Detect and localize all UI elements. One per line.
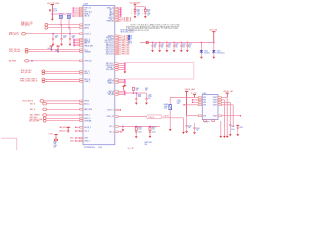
- svg-text:PROX_SNS_N: PROX_SNS_N: [22, 101, 34, 103]
- svg-text:MIPI_DSI0: MIPI_DSI0: [122, 50, 130, 52]
- svg-text:BAT_SNS: BAT_SNS: [84, 108, 92, 111]
- svg-text:1uF: 1uF: [147, 14, 150, 16]
- U400 left stub wires top rows: [73, 7, 79, 9]
- ground arrow branch A: [134, 16, 137, 18]
- capacitor bank column C413: [174, 42, 175, 43]
- svg-text:GPIO_25: GPIO_25: [107, 116, 114, 118]
- svg-text:100K: 100K: [138, 128, 142, 130]
- svg-text:TP: TP: [130, 39, 132, 41]
- ground arrow x224: [223, 136, 226, 138]
- row 131.8 stub: [118, 131, 121, 133]
- svg-text:U_DP: U_DP: [49, 134, 53, 136]
- svg-text:1uF: 1uF: [196, 129, 199, 131]
- ground arrow C430: [185, 131, 188, 133]
- power flag 5V_CTP: [193, 94, 196, 96]
- svg-text:10K: 10K: [136, 90, 139, 92]
- RP400 tap wire down to SCL: [60, 18, 62, 24]
- cap to ground B on row 93: [146, 93, 148, 98]
- svg-text:MIPI_DSI0: MIPI_DSI0: [122, 54, 130, 56]
- svg-text:SPKR_CONN_GSM2_P: SPKR_CONN_GSM2_P: [20, 78, 37, 80]
- svg-text:SPKR_CONN_GSM2_M: SPKR_CONN_GSM2_M: [20, 80, 38, 82]
- ground arrow D403: [212, 57, 215, 59]
- ground arrow below upper bus bar: [124, 69, 126, 72]
- off-page circles TPNR pair: [25, 48, 28, 51]
- wire row 126.4 to divider: [118, 125, 160, 127]
- svg-text:100K: 100K: [138, 96, 142, 98]
- svg-text:SD05C1: SD05C1: [204, 52, 210, 54]
- vertical wire with ground x183: [182, 118, 184, 132]
- ground arrow branch B: [144, 16, 147, 18]
- big IC U400 body: [83, 6, 115, 145]
- wire AUD 1: [45, 70, 80, 72]
- svg-text:PWM_BL: PWM_BL: [107, 21, 114, 23]
- power vertical x135: [134, 4, 136, 7]
- svg-text:SMB_S_CTP: SMB_S_CTP: [9, 32, 18, 34]
- MIPI bus lower bus bar: [124, 79, 126, 83]
- svg-text:LINE_2: LINE_2: [84, 81, 90, 83]
- U400 right rows 17.8-21 net labels: [118, 17, 121, 19]
- capacitor bank column C410: [152, 42, 153, 43]
- MIPI bus upper bus bar: [124, 62, 126, 70]
- svg-text:1uF: 1uF: [137, 14, 140, 16]
- ground arrow x220.8 under U401: [220, 121, 222, 136]
- resistor R402 branch A: [134, 9, 136, 11]
- ESD diode D402 branch wire: [201, 42, 202, 43]
- wire bead to U401 pin 1: [170, 96, 198, 98]
- svg-text:VOUT_5: VOUT_5: [107, 110, 114, 112]
- svg-text:1uF: 1uF: [188, 127, 191, 129]
- U401 left stub wires rows 2-3: [193, 99, 199, 101]
- svg-text:C428: C428: [177, 100, 181, 102]
- U401 right pin 4 wire and drop: [221, 104, 233, 106]
- ESD diode D403: [212, 50, 215, 52]
- power continues down to capacitor: [186, 116, 188, 126]
- MIPI bus upper pin group wires: [118, 63, 124, 65]
- U400 right pin number boxes: [115, 7, 118, 9]
- svg-text:NC_1: NC_1: [109, 126, 113, 128]
- capacitor cluster col 2: [61, 25, 63, 39]
- svg-text:10V: 10V: [182, 47, 185, 49]
- capacitor bottom left of U401: [186, 125, 188, 127]
- wire BAT_THERM: [47, 114, 80, 116]
- wire CTP_INT: [25, 33, 79, 35]
- U401 right pin 3 wire and drop: [221, 101, 230, 103]
- svg-text:LP5907: LP5907: [204, 122, 210, 124]
- svg-text:FB400: FB400: [164, 104, 169, 106]
- ground arrow bank C410: [151, 50, 154, 52]
- power wire vertical x52.3: [51, 5, 53, 19]
- svg-text:U400: U400: [84, 4, 89, 6]
- power flag U5V_LCM: [212, 31, 215, 33]
- wire PROX: [44, 100, 80, 102]
- capacitor branch A: [134, 12, 136, 13]
- svg-text:10V: 10V: [148, 98, 151, 100]
- wire power to U401 lower left pin: [187, 115, 199, 117]
- svg-text:10V: 10V: [154, 47, 157, 49]
- wire SPKR 2: [45, 80, 80, 82]
- svg-text:0.1uF: 0.1uF: [53, 10, 57, 12]
- svg-text:NC_2: NC_2: [109, 131, 113, 133]
- off-page oval BAT_THERM: [43, 114, 47, 117]
- svg-text:10K: 10K: [147, 11, 150, 13]
- ESD diode D402: [200, 50, 203, 52]
- wire SMB_SCL: [48, 24, 80, 26]
- USB cluster power flag: [54, 133, 57, 135]
- resistor R420 vertical: [135, 126, 137, 128]
- net label box LCM_ID: [146, 115, 161, 119]
- svg-text:3. BL ANODE WIDTH 12 MIL: 3. BL ANODE WIDTH 12 MIL: [126, 29, 149, 32]
- svg-text:U401: U401: [202, 93, 206, 95]
- svg-text:2.2uH: 2.2uH: [128, 43, 132, 45]
- svg-text:VOUT: VOUT: [213, 102, 217, 104]
- U401 right pin boxes: [218, 97, 221, 99]
- capacitor cluster under I2C lines - col 1: [52, 34, 54, 39]
- wire LCM_ID row: [118, 116, 146, 118]
- svg-text:0.1uF: 0.1uF: [177, 102, 181, 104]
- wire from LCM_ID oval to ground drop: [162, 117, 184, 119]
- svg-text:MIPI_DSI0: MIPI_DSI0: [122, 48, 130, 50]
- branch A pin tick: [134, 7, 136, 10]
- svg-text:GND2: GND2: [70, 141, 74, 143]
- svg-text:VBAT_1: VBAT_1: [108, 81, 114, 84]
- U400 left stub wires rows 39-46: [74, 38, 80, 40]
- svg-text:10V: 10V: [168, 47, 171, 49]
- regulator U401 body: [202, 95, 218, 120]
- off-page circles USB pair: [43, 117, 46, 120]
- U401 left wire row 4: [184, 104, 198, 106]
- svg-text:10V: 10V: [63, 37, 66, 39]
- svg-text:LCM: LCM: [98, 147, 102, 149]
- capacitor below R421: [149, 129, 151, 132]
- ESD diode D403 branch wire: [213, 42, 214, 43]
- resistor R403 branch B: [144, 9, 146, 11]
- power flag U5B_BL_ANO: [185, 90, 188, 92]
- wire SMB_SDA: [48, 27, 80, 29]
- svg-text:LCM_ID: LCM_ID: [163, 116, 169, 118]
- svg-text:THERM: THERM: [84, 51, 91, 53]
- capacitor bank column C414: [181, 42, 182, 43]
- U401 right pin 2 wire and drop: [221, 99, 224, 101]
- svg-text:TPNR_VIB_GB2: TPNR_VIB_GB2: [9, 51, 21, 53]
- ground arrow bank C413: [173, 50, 176, 52]
- svg-text:C401: C401: [53, 9, 57, 11]
- power flag bar top-left: [51, 4, 54, 6]
- MIPI bus lower pin group wires: [118, 79, 124, 81]
- capacitor bank column C412: [166, 42, 167, 43]
- wire SPKR 1: [45, 78, 80, 80]
- branch B pin tick: [144, 7, 146, 10]
- svg-text:VDD18: VDD18: [84, 24, 90, 26]
- ground arrow R421 branch: [149, 136, 152, 138]
- off-page circles AUD pair: [42, 70, 45, 73]
- svg-text:I2C_5: I2C_5: [84, 131, 89, 133]
- U400 right stub row 109.9: [118, 109, 120, 111]
- page corner border box: [1, 137, 17, 139]
- svg-text:CHG_1: CHG_1: [84, 115, 90, 117]
- off-page circles SMB pair: [45, 23, 48, 26]
- svg-text:VOUT: VOUT: [213, 115, 217, 117]
- svg-text:BST_N: BST_N: [30, 103, 36, 105]
- bus wire top segment: [125, 61, 193, 63]
- svg-text:C433: C433: [239, 127, 243, 129]
- svg-text:CTP_INT_N: CTP_INT_N: [21, 25, 31, 27]
- capacitor bank column C411: [159, 42, 160, 43]
- capacitor cluster col 3: [69, 28, 71, 39]
- U401 bottom pin boxes: [203, 120, 206, 122]
- ground arrow bank C414: [180, 50, 183, 52]
- off-page circles SPKR pair: [42, 78, 45, 81]
- capacitor branch B: [144, 12, 146, 13]
- wire VIB_PWM: [29, 60, 80, 62]
- power arrow mid-left bottom: [67, 126, 70, 128]
- ground arrow bank C411: [158, 50, 161, 52]
- svg-text:1pF: 1pF: [53, 146, 56, 148]
- svg-text:MIPI_DSI0: MIPI_DSI0: [122, 52, 130, 54]
- bus wire bottom segment: [125, 78, 193, 80]
- U401 lower right pin wire: [221, 115, 240, 117]
- svg-text:C422: C422: [152, 132, 156, 134]
- power flag bar top middle: [134, 3, 137, 5]
- ground arrow bank C412: [166, 50, 169, 52]
- RP401 tap wire down to SDA: [68, 18, 70, 27]
- svg-text:VIB_PWM: VIB_PWM: [9, 61, 17, 63]
- off-page oval CTP_INT: [22, 32, 26, 35]
- output capacitor C432: [229, 124, 231, 126]
- svg-text:INT_N: INT_N: [84, 16, 90, 18]
- svg-text:ALS_1: ALS_1: [84, 102, 89, 105]
- U401 right pin 1 wire and drop: [221, 96, 227, 98]
- ground arrow C431: [193, 132, 196, 134]
- capacitor bank column C415: [187, 42, 188, 43]
- svg-text:C421: C421: [138, 132, 142, 134]
- ground arrow R420 branch: [135, 136, 138, 138]
- wire USB 2: [46, 120, 80, 122]
- off-page oval PROX: [40, 100, 44, 103]
- svg-text:USB_VBUS_PHN: USB_VBUS_PHN: [29, 119, 43, 121]
- svg-text:10V: 10V: [161, 47, 164, 49]
- svg-text:R431: R431: [48, 48, 52, 50]
- wire USB 1: [46, 117, 80, 119]
- inductor L400 body: [146, 41, 148, 43]
- svg-text:VDD_MIPI: VDD_MIPI: [106, 69, 115, 71]
- svg-text:0402: 0402: [164, 108, 168, 110]
- svg-text:GPIO_66: GPIO_66: [84, 60, 91, 62]
- ground arrow C433: [236, 134, 239, 136]
- svg-text:LCD_RST_N: LCD_RST_N: [122, 21, 132, 23]
- svg-text:10V: 10V: [72, 37, 75, 39]
- cap to ground A on row 93: [135, 93, 137, 98]
- wire AUD 2: [45, 72, 80, 74]
- svg-text:5V_CTP: 5V_CTP: [128, 148, 134, 150]
- svg-text:D403: D403: [217, 51, 221, 53]
- ground arrow x227: [226, 136, 229, 138]
- ferrite bead FB400 wire from top: [169, 97, 171, 104]
- U400 right LCD data rows 40-54 labels: [118, 39, 121, 41]
- svg-text:VSS_2: VSS_2: [84, 141, 89, 143]
- series resistor above row 93: [132, 90, 134, 93]
- power symbol below lower bus bar: [124, 83, 126, 85]
- ground arrow below top-left power: [51, 19, 54, 21]
- bead lower wire: [169, 110, 171, 129]
- svg-text:VOUT: VOUT: [213, 97, 217, 99]
- output capacitor C433: [236, 124, 239, 126]
- svg-text:MIPI_DSI0: MIPI_DSI0: [122, 46, 130, 48]
- svg-text:MCLK_1: MCLK_1: [84, 127, 91, 129]
- resistor R421 vertical: [149, 126, 151, 128]
- wire row 103.7: [47, 103, 80, 105]
- ground arrow D402: [200, 57, 203, 59]
- svg-text:2.2uF: 2.2uF: [231, 129, 235, 131]
- wire BAT_ID: [47, 108, 80, 110]
- svg-text:LCM_ID: LCM_ID: [148, 117, 155, 119]
- U400 right top stub wires: [118, 7, 121, 9]
- svg-text:BL_EN: BL_EN: [108, 94, 114, 96]
- svg-text:MIC_IN_PWR: MIC_IN_PWR: [29, 121, 40, 123]
- svg-text:DSI_D2_N: DSI_D2_N: [106, 54, 115, 56]
- svg-text:AVDD: AVDD: [84, 26, 89, 29]
- off-page oval row 103.7: [43, 102, 47, 105]
- long wire row 93: [125, 92, 146, 94]
- power tee horizontal: [135, 6, 145, 8]
- svg-text:USB_HSIC: USB_HSIC: [29, 117, 38, 119]
- off-page oval VIB_PWM: [25, 60, 29, 63]
- wire row 93 to RC cluster: [118, 90, 124, 92]
- power flag U5B_BL_CAT: [226, 92, 229, 94]
- svg-text:10V: 10V: [175, 47, 178, 49]
- U5V_LCM rail wire: [140, 42, 214, 44]
- wire TPNR 1: [28, 49, 80, 51]
- svg-text:TPNR_VIB_GB: TPNR_VIB_GB: [9, 49, 20, 51]
- U401 left pin boxes: [198, 97, 201, 99]
- power symbol above bar x123.7: [122, 85, 125, 87]
- svg-text:10V: 10V: [177, 103, 180, 105]
- capacitor C401 marks: [49, 8, 51, 10]
- svg-text:10K: 10K: [152, 128, 155, 130]
- USB cluster resistor box: [54, 139, 57, 141]
- svg-text:LESD5D5.0: LESD5D5.0: [217, 52, 225, 54]
- svg-text:TOUT_2: TOUT_2: [84, 33, 91, 35]
- U400 right rows 35.8-39 with TP marks: [118, 35, 121, 37]
- ferrite bead FB400 body: [169, 105, 172, 110]
- wire from power to RP row y14: [52, 13, 79, 15]
- ground arrow under bead: [169, 129, 172, 131]
- svg-text:VOUT: VOUT: [213, 104, 217, 106]
- second capacitor bottom left of U401: [194, 123, 196, 127]
- svg-text:TFT3P2876-E: TFT3P2876-E: [84, 147, 96, 149]
- svg-text:10K: 10K: [137, 11, 140, 13]
- svg-text:STROBE: STROBE: [84, 120, 92, 122]
- ground arrow bank C415: [186, 50, 189, 52]
- ground drop near pin row 126.4: [122, 126, 124, 128]
- wire TPNR 2: [28, 51, 80, 53]
- svg-text:10V: 10V: [188, 47, 191, 49]
- pull-up resistor R432 power flag: [56, 45, 59, 47]
- svg-text:VOUT: VOUT: [213, 100, 217, 102]
- capacitor below R420: [135, 129, 137, 132]
- svg-text:D402: D402: [204, 51, 208, 53]
- svg-text:R432: R432: [55, 50, 59, 52]
- svg-text:10V: 10V: [55, 37, 58, 39]
- svg-text:C432: C432: [231, 126, 235, 128]
- pull-up resistor R431 power flag: [50, 45, 53, 47]
- U400 left pin number boxes: [80, 7, 83, 9]
- bus bar rows 91-95: [124, 91, 126, 96]
- svg-text:VBUS_DET: VBUS_DET: [84, 45, 93, 47]
- svg-text:HPH_L: HPH_L: [84, 73, 90, 75]
- off-page oval BAT_ID: [43, 108, 47, 111]
- bus wire right segment: [193, 62, 195, 79]
